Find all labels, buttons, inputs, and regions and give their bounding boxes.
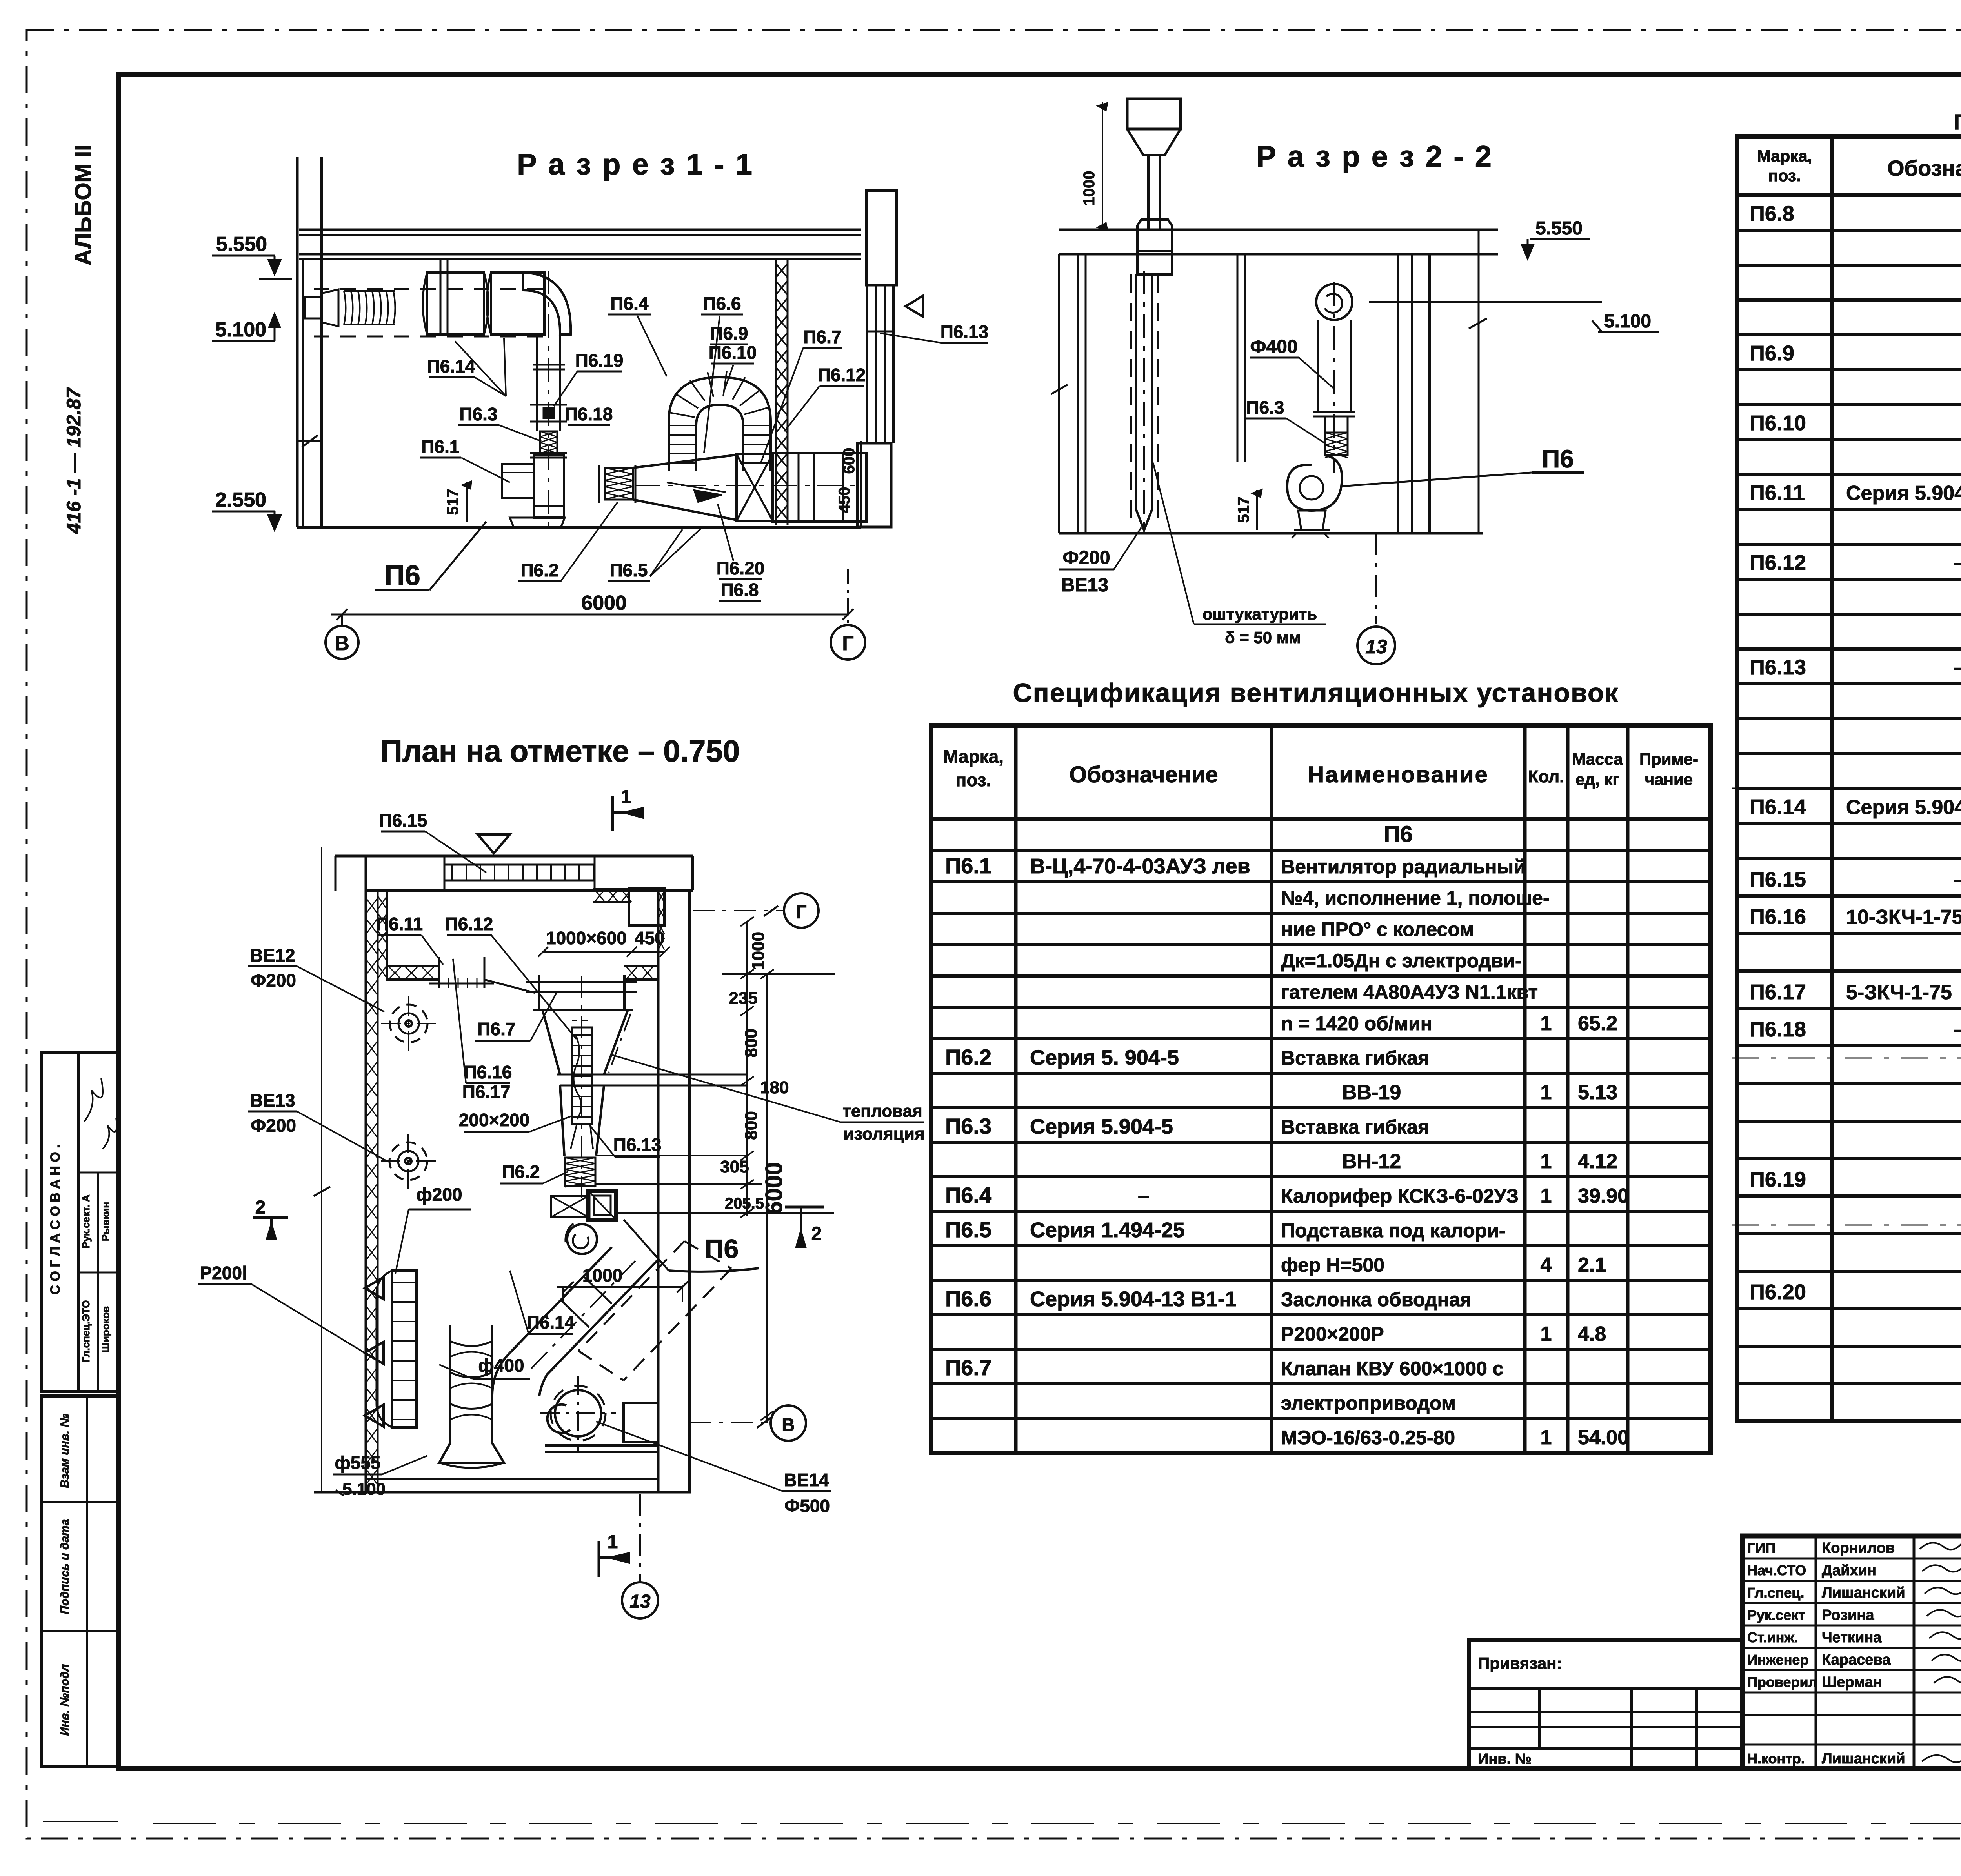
spec table grid: [931, 725, 1710, 1453]
duct F400 with top circle: [1316, 284, 1352, 320]
silencer cylinder 2 (P6.14): [491, 273, 544, 334]
svg-text:Ф200: Ф200: [251, 1115, 296, 1136]
svg-text:П6.3: П6.3: [945, 1114, 991, 1138]
svg-text:–: –: [1954, 869, 1961, 891]
svg-text:Кол.: Кол.: [1528, 767, 1564, 786]
section 2-2 left wall: [1077, 254, 1079, 533]
section 1-1 inner partition line: [440, 259, 442, 335]
svg-text:Продолжение: Продолжение: [1954, 109, 1961, 134]
dim 517 vertical: [466, 482, 468, 522]
svg-text:5.550: 5.550: [216, 233, 267, 256]
svg-text:Корнилов: Корнилов: [1822, 1540, 1895, 1556]
svg-text:Н.контр.: Н.контр.: [1747, 1751, 1805, 1767]
plan right wall pair: [657, 889, 660, 1492]
section 1-1 axis break mark left: [298, 440, 322, 442]
svg-text:П6.16: П6.16: [1750, 905, 1806, 929]
svg-text:П6.7: П6.7: [477, 1019, 515, 1039]
svg-text:1: 1: [1541, 1185, 1552, 1207]
signature scribbles: [84, 1078, 103, 1122]
svg-text:П6.9: П6.9: [1750, 342, 1794, 365]
privyazan box: [1469, 1640, 1743, 1769]
silencer cylinder 1 (P6.14): [427, 273, 484, 334]
bottom-left short line: [43, 1821, 118, 1822]
svg-text:4.12: 4.12: [1578, 1150, 1617, 1173]
svg-text:изоляция: изоляция: [843, 1124, 924, 1143]
svg-text:5.100: 5.100: [215, 318, 266, 341]
flange pair P6.19: [533, 364, 565, 366]
grille triangle symbol: [478, 834, 510, 853]
svg-text:517: 517: [1235, 497, 1252, 523]
svg-text:5.100: 5.100: [1604, 311, 1651, 332]
grille opening P6.15 in top wall: [444, 865, 595, 880]
svg-text:Рывкин: Рывкин: [100, 1202, 111, 1241]
svg-text:–: –: [1954, 1018, 1961, 1041]
svg-text:П6.13: П6.13: [1750, 656, 1806, 679]
svg-text:Вентилятор радиальный: Вентилятор радиальный: [1281, 856, 1526, 878]
left margin approval stamp box: [42, 1052, 118, 1391]
svg-text:Шерман: Шерман: [1822, 1674, 1882, 1691]
section 1-1 right insulated partition: [775, 259, 777, 525]
section 1-1 lower wall block: [857, 443, 891, 527]
inner chamber partition with door: [386, 965, 439, 967]
svg-text:П6.4: П6.4: [945, 1183, 991, 1207]
svg-text:Марка,: Марка,: [1757, 147, 1812, 165]
section 1-1 left wall: [296, 157, 299, 527]
svg-text:Г: Г: [842, 632, 853, 655]
svg-text:Серия 5.904-13 В1-1: Серия 5.904-13 В1-1: [1030, 1287, 1237, 1311]
svg-text:200×200: 200×200: [459, 1110, 529, 1130]
svg-text:Р200Ⅰ: Р200Ⅰ: [200, 1263, 247, 1283]
fan scroll circle in plan: [567, 1224, 597, 1254]
svg-text:Марка,: Марка,: [943, 746, 1004, 767]
door P6.11 flanges: [438, 957, 440, 988]
svg-text:№4, исполнение 1, полоше-: №4, исполнение 1, полоше-: [1281, 887, 1550, 909]
svg-text:П6.7: П6.7: [945, 1355, 991, 1380]
heater KSK3 P6.4 with cross: [737, 454, 773, 521]
svg-text:Проверил: Проверил: [1747, 1674, 1817, 1690]
svg-text:П6.17: П6.17: [1750, 980, 1806, 1004]
funnel mid flange band and 180 dim lines: [557, 1074, 747, 1076]
svg-text:Ф400: Ф400: [1250, 336, 1297, 357]
diagonal duct dashed outline P6.14: [578, 1241, 684, 1351]
svg-text:65.2: 65.2: [1578, 1012, 1617, 1035]
svg-text:Лишанский: Лишанский: [1822, 1585, 1905, 1601]
svg-text:10-ЗКЧ-1-75: 10-ЗКЧ-1-75: [1846, 906, 1961, 929]
svg-text:Серия 5.904-17 В1-1: Серия 5.904-17 В1-1: [1846, 796, 1961, 819]
fan casing: [534, 455, 564, 518]
svg-text:5.550: 5.550: [1535, 218, 1583, 239]
plan top wall: [335, 855, 693, 858]
svg-text:800: 800: [742, 1029, 761, 1057]
svg-text:П6.6: П6.6: [703, 293, 741, 314]
svg-text:ГИП: ГИП: [1747, 1540, 1775, 1556]
svg-text:Вставка гибкая: Вставка гибкая: [1281, 1047, 1429, 1069]
section 2-2 right edge line: [1478, 230, 1480, 533]
svg-text:оштукатурить: оштукатурить: [1202, 605, 1317, 623]
duct dashed lines through silencers: [314, 288, 545, 290]
svg-text:П6.3: П6.3: [459, 404, 497, 424]
section 2-2 roof slab: [1059, 229, 1498, 231]
svg-text:П6.14: П6.14: [427, 356, 475, 376]
svg-text:Дк=1.05Дн с электродви-: Дк=1.05Дн с электродви-: [1281, 950, 1522, 972]
svg-text:Масса: Масса: [1572, 750, 1623, 768]
svg-text:В: В: [782, 1414, 795, 1435]
svg-text:Инв. №: Инв. №: [1478, 1751, 1532, 1767]
funnel lower trapezoid: [560, 1085, 564, 1156]
section 1-1 floor line: [297, 526, 861, 529]
svg-text:П6.3: П6.3: [1246, 397, 1284, 418]
svg-text:Серия 1.494-25: Серия 1.494-25: [1030, 1218, 1185, 1242]
svg-text:П6.11: П6.11: [1750, 481, 1805, 505]
svg-text:П6.2: П6.2: [520, 560, 558, 580]
chamber top hatch right segment: [593, 888, 631, 891]
deflector cap: [1127, 99, 1181, 129]
svg-text:–: –: [1954, 656, 1961, 679]
vertical duct center line: [548, 271, 549, 527]
svg-text:Гл.спец.: Гл.спец.: [1747, 1585, 1804, 1601]
svg-text:1: 1: [608, 1532, 618, 1552]
svg-text:П6.5: П6.5: [609, 560, 648, 580]
chamber corner block: [629, 888, 664, 925]
svg-text:Обозначение: Обозначение: [1887, 156, 1961, 180]
svg-text:Спецификация вентиляционных: Спецификация вентиляционных установок: [1013, 678, 1619, 708]
axis circle 13 below section 2-2: [1375, 533, 1377, 624]
rect duct to wall: [773, 453, 866, 522]
svg-text:5-ЗКЧ-1-75: 5-ЗКЧ-1-75: [1846, 981, 1952, 1004]
svg-text:В-Ц,4-70-4-03АУЗ лев: В-Ц,4-70-4-03АУЗ лев: [1030, 854, 1250, 878]
svg-text:39.90: 39.90: [1578, 1185, 1629, 1207]
inner chamber vertical partition strip: [386, 891, 388, 980]
svg-text:Г: Г: [796, 902, 806, 923]
section 2-2 right wall: [1397, 254, 1399, 533]
svg-text:1000: 1000: [1081, 171, 1098, 206]
section mark 2 left: [253, 1216, 288, 1219]
svg-text:ВЕ13: ВЕ13: [1061, 575, 1108, 596]
sheet fold dash lines: [1732, 788, 1961, 789]
dim 6000 plan vertical: [766, 974, 768, 1423]
svg-text:Инженер: Инженер: [1747, 1652, 1808, 1668]
svg-text:Четкина: Четкина: [1822, 1629, 1882, 1646]
KVU valve flanges P6.7: [526, 981, 637, 983]
svg-text:П6.1: П6.1: [945, 853, 991, 878]
plug plate P6.18 small square: [544, 408, 554, 418]
svg-text:Инв. №подл: Инв. №подл: [58, 1664, 71, 1736]
svg-text:фер Н=500: фер Н=500: [1281, 1254, 1384, 1276]
svg-text:1: 1: [1541, 1150, 1552, 1173]
continuation table grid: [1737, 136, 1961, 1421]
svg-text:П6.18: П6.18: [1750, 1018, 1806, 1041]
svg-text:Р а з р е з 1 - 1: Р а з р е з 1 - 1: [517, 148, 754, 181]
svg-text:180: 180: [760, 1078, 789, 1097]
wall ledge near VE14: [624, 1403, 658, 1442]
svg-text:235: 235: [729, 989, 757, 1008]
svg-text:6000: 6000: [581, 592, 627, 614]
svg-text:517: 517: [444, 489, 462, 515]
axis circle V: [326, 626, 358, 659]
triangle flow marker: [906, 296, 923, 317]
VE14 big circle: [555, 1390, 601, 1436]
svg-text:Калорифер КСКЗ-6-02УЗ: Калорифер КСКЗ-6-02УЗ: [1281, 1185, 1519, 1207]
fan motor below: [1298, 511, 1326, 530]
svg-text:δ = 50 мм: δ = 50 мм: [1225, 628, 1301, 647]
svg-text:П6.1: П6.1: [421, 436, 459, 457]
svg-text:электроприводом: электроприводом: [1281, 1392, 1456, 1414]
svg-text:АЛЬБОМ II: АЛЬБОМ II: [71, 145, 96, 265]
svg-text:Вставка гибкая: Вставка гибкая: [1281, 1116, 1429, 1138]
svg-text:План на отметке – 0.750: План на отметке – 0.750: [380, 734, 740, 768]
fan unit P6.1 motor: [502, 464, 534, 498]
funnel centerline: [581, 976, 582, 1200]
svg-text:2.550: 2.550: [215, 489, 266, 511]
register branch triangles: [365, 1277, 384, 1299]
partition right segment: [484, 980, 535, 993]
svg-text:Взам инв. №: Взам инв. №: [58, 1414, 71, 1488]
svg-text:450: 450: [836, 487, 853, 513]
svg-text:П6.15: П6.15: [1750, 868, 1806, 891]
elbow and vertical duct F400 with helix: [492, 1353, 510, 1396]
unit P6 motor black square: [588, 1191, 616, 1220]
section 1-1 shaft with patrubok duct P6.13: [866, 285, 868, 443]
svg-text:Ф200: Ф200: [1062, 547, 1110, 568]
VE13 circle symbol: [389, 1142, 427, 1180]
svg-text:Ф500: Ф500: [784, 1496, 830, 1516]
axis circle V plan: [771, 1405, 806, 1441]
svg-text:5.13: 5.13: [1578, 1081, 1617, 1104]
svg-text:2.1: 2.1: [1578, 1254, 1606, 1276]
plan top-right wall edge: [691, 856, 694, 890]
svg-text:1: 1: [1541, 1323, 1552, 1345]
svg-text:Серия 5.904-5: Серия 5.904-5: [1030, 1115, 1173, 1138]
svg-text:ВЕ13: ВЕ13: [250, 1090, 295, 1111]
svg-text:6000: 6000: [761, 1162, 787, 1214]
svg-text:Серия 5. 904-5: Серия 5. 904-5: [1030, 1046, 1179, 1069]
svg-text:ВН-12: ВН-12: [1342, 1150, 1401, 1173]
section 1-1 right wall column top block: [866, 191, 897, 285]
plan left dimension line: [321, 847, 322, 1492]
svg-text:чание: чание: [1645, 770, 1693, 789]
svg-text:П6.20: П6.20: [1750, 1280, 1806, 1304]
svg-text:4: 4: [1541, 1254, 1552, 1276]
svg-text:Розина: Розина: [1822, 1607, 1874, 1623]
vertical dim 600/450 at duct end: [860, 441, 862, 527]
svg-text:П6: П6: [1384, 822, 1413, 847]
svg-text:Карасева: Карасева: [1822, 1652, 1891, 1668]
flexible insert P6.3 hatched: [540, 431, 557, 453]
svg-text:Заслонка обводная: Заслонка обводная: [1281, 1289, 1472, 1311]
svg-text:ВЕ12: ВЕ12: [250, 945, 295, 965]
bypass U duct corrugated (P6.6/P6.9): [669, 377, 771, 471]
svg-text:П6.8: П6.8: [1750, 202, 1794, 225]
svg-text:В: В: [335, 632, 349, 655]
svg-text:П6.18: П6.18: [565, 404, 613, 424]
VE12 circle symbol: [390, 1005, 427, 1042]
svg-text:ф200: ф200: [417, 1184, 462, 1205]
funnel upper trapezoid: [543, 1011, 560, 1074]
left margin lower stamp box (Vzam inv / Podpis / Inv): [42, 1396, 118, 1767]
dim 1000 deflector: [1102, 102, 1103, 231]
svg-text:1: 1: [1541, 1426, 1552, 1449]
svg-text:Р а з р е з 2 - 2: Р а з р е з 2 - 2: [1256, 140, 1493, 173]
svg-text:450: 450: [635, 928, 665, 948]
fan scroll in section 2-2: [1287, 455, 1342, 511]
svg-text:1000: 1000: [749, 932, 768, 970]
svg-text:П6.2: П6.2: [502, 1162, 540, 1182]
svg-text:800: 800: [742, 1111, 761, 1140]
flexible insert P6.3 hatched in section 2-2: [1325, 433, 1348, 455]
svg-text:ед, кг: ед, кг: [1575, 770, 1619, 789]
A2 sheet lower edge line: [153, 1823, 1961, 1824]
svg-text:Рук.сект: Рук.сект: [1747, 1607, 1805, 1623]
svg-text:Клапан КВУ 600×1000 с: Клапан КВУ 600×1000 с: [1281, 1358, 1503, 1380]
svg-text:–: –: [1138, 1184, 1150, 1207]
svg-text:ВВ-19: ВВ-19: [1342, 1081, 1401, 1104]
svg-text:n = 1420 об/мин: n = 1420 об/мин: [1281, 1013, 1432, 1034]
svg-text:13: 13: [629, 1591, 651, 1612]
svg-text:205.5: 205.5: [725, 1195, 764, 1212]
svg-text:П6.19: П6.19: [575, 350, 624, 371]
plan axis circles: [693, 910, 784, 911]
svg-text:П6.17: П6.17: [462, 1082, 511, 1102]
svg-text:П6.4: П6.4: [610, 293, 648, 314]
svg-text:Подставка под калори-: Подставка под калори-: [1281, 1220, 1506, 1242]
svg-text:П6.15: П6.15: [379, 810, 427, 831]
svg-text:416 -1 — 192.87: 416 -1 — 192.87: [63, 387, 85, 534]
svg-text:П6.8: П6.8: [720, 580, 759, 600]
svg-text:Ст.инж.: Ст.инж.: [1747, 1629, 1798, 1645]
title block outer frame: [1743, 1536, 1961, 1769]
intake nozzle on wall: [305, 297, 322, 318]
svg-text:ф400: ф400: [478, 1355, 524, 1376]
F555 outlet flare: [439, 1443, 504, 1463]
svg-text:Рук.сект. А: Рук.сект. А: [80, 1194, 92, 1249]
svg-text:П6.5: П6.5: [945, 1217, 991, 1242]
svg-text:П6.11: П6.11: [376, 914, 423, 934]
svg-text:П6.16: П6.16: [464, 1062, 512, 1082]
svg-text:Подпись и дата: Подпись и дата: [58, 1519, 71, 1614]
section mark 2 right: [785, 1206, 824, 1209]
svg-text:С О Г Л А С О В А Н О .: С О Г Л А С О В А Н О .: [48, 1144, 63, 1294]
svg-text:2: 2: [811, 1223, 822, 1244]
svg-text:ние ПРО° с колесом: ние ПРО° с колесом: [1281, 918, 1474, 940]
svg-text:1: 1: [621, 787, 631, 807]
svg-text:Серия 5.904-4: Серия 5.904-4: [1846, 482, 1961, 505]
svg-text:П6.12: П6.12: [445, 914, 493, 934]
svg-text:П6.20: П6.20: [717, 558, 765, 578]
svg-text:П6.2: П6.2: [945, 1045, 991, 1069]
svg-text:Нач.СТО: Нач.СТО: [1747, 1562, 1806, 1578]
svg-text:П6: П6: [705, 1234, 739, 1264]
title block signature columns: [1815, 1536, 1817, 1769]
plan right dimension column: [746, 922, 748, 1216]
svg-text:поз.: поз.: [1768, 166, 1801, 185]
svg-text:П6.19: П6.19: [1750, 1168, 1806, 1191]
diffuser transition duct: [633, 455, 737, 468]
svg-text:П6.12: П6.12: [818, 365, 866, 385]
svg-text:Наименование: Наименование: [1308, 762, 1489, 787]
svg-text:П6.14: П6.14: [1750, 795, 1806, 819]
svg-text:Гл.спец.ЭТО: Гл.спец.ЭТО: [80, 1300, 92, 1363]
break marks right dim: [1469, 318, 1487, 329]
svg-text:П6.13: П6.13: [613, 1134, 662, 1155]
axis circle 13 plan: [622, 1582, 658, 1618]
svg-text:Приме-: Приме-: [1639, 750, 1698, 768]
svg-text:2: 2: [255, 1197, 266, 1218]
svg-text:Лишанский: Лишанский: [1822, 1751, 1905, 1767]
dim line left of section 2-2: [1058, 254, 1060, 533]
duct bay verticals (P6.12 frame): [538, 975, 540, 1011]
svg-text:МЭО-16/63-0.25-80: МЭО-16/63-0.25-80: [1281, 1427, 1455, 1449]
svg-text:5.100: 5.100: [342, 1480, 386, 1499]
svg-text:Р200×200Р: Р200×200Р: [1281, 1323, 1384, 1345]
svg-text:П6: П6: [1542, 445, 1574, 473]
svg-text:4.8: 4.8: [1578, 1323, 1606, 1345]
svg-text:П6.14: П6.14: [527, 1312, 575, 1332]
svg-text:1000×600: 1000×600: [546, 928, 627, 948]
svg-text:П6.13: П6.13: [940, 322, 989, 342]
svg-text:П6: П6: [384, 560, 420, 591]
section 2-2 interior wall line: [1237, 254, 1239, 462]
unit P6 damper square with diagonal: [551, 1196, 588, 1217]
svg-text:1: 1: [1541, 1012, 1552, 1035]
svg-text:тепловая: тепловая: [842, 1102, 922, 1121]
riser P200 duct on left wall: [392, 1271, 417, 1427]
section cut mark 1 bottom: [598, 1541, 600, 1577]
svg-text:П6.9: П6.9: [710, 323, 748, 344]
section 1-1 bottom dimension 6000: [331, 614, 849, 616]
deflector stem: [1147, 155, 1150, 230]
svg-text:600: 600: [840, 448, 858, 474]
exhaust pipe F200 with insulation dashed: [1135, 274, 1137, 510]
svg-text:Дайхин: Дайхин: [1822, 1562, 1876, 1579]
flex insert P6.2 plan hatched: [565, 1158, 595, 1186]
axis circle G: [831, 625, 865, 660]
svg-text:Ф200: Ф200: [251, 970, 296, 991]
dim 517 section 2-2: [1256, 490, 1258, 530]
svg-text:ф555: ф555: [335, 1452, 381, 1473]
plan bottom wall: [314, 1491, 691, 1494]
svg-text:Широков: Широков: [100, 1306, 111, 1352]
svg-text:П6.10: П6.10: [1750, 411, 1806, 435]
duct elbow to vertical: [523, 273, 571, 334]
svg-text:ВЕ14: ВЕ14: [784, 1470, 829, 1490]
svg-text:305: 305: [720, 1157, 749, 1176]
plan left wall with insulation: [365, 856, 367, 1494]
svg-text:П6.7: П6.7: [803, 327, 841, 347]
section cut mark 1 top: [611, 796, 614, 831]
deflector collar at roof: [1137, 220, 1172, 274]
transition centerline with arrow: [635, 485, 859, 486]
svg-text:1: 1: [1541, 1081, 1552, 1104]
fan base support: [510, 518, 565, 527]
svg-text:П6.12: П6.12: [1750, 551, 1806, 574]
section 2-2 floor: [1059, 532, 1483, 535]
silencer cartridge inside funnel: [572, 1027, 592, 1124]
svg-text:Привязан:: Привязан:: [1478, 1654, 1562, 1672]
flexible insert P6.2 hatched: [605, 468, 633, 500]
svg-text:–: –: [1954, 552, 1961, 574]
section 1-1 ceiling slab: [299, 229, 861, 231]
svg-text:гателем 4А80А4УЗ N1.1квт: гателем 4А80А4УЗ N1.1квт: [1281, 981, 1538, 1003]
svg-text:1000: 1000: [582, 1265, 622, 1285]
svg-text:13: 13: [1365, 636, 1387, 658]
svg-text:П6.6: П6.6: [945, 1286, 991, 1311]
diagonal silencer duct to elbow: [510, 1247, 612, 1353]
svg-text:поз.: поз.: [956, 770, 991, 790]
svg-text:54.00: 54.00: [1578, 1426, 1629, 1449]
flexible connector corrugated: [344, 291, 346, 325]
svg-text:П6.10: П6.10: [709, 342, 757, 363]
svg-text:Обозначение: Обозначение: [1069, 762, 1218, 787]
